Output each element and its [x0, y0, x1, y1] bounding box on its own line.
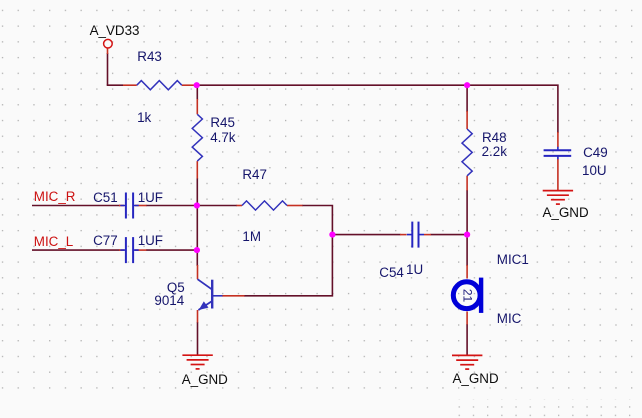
transistor Q5 — [198, 279, 223, 310]
label C54 — [379, 266, 404, 279]
capacitor C77 plates — [120, 237, 138, 263]
wire MIC_R net to C51 — [32, 205, 120, 207]
label 9014 — [154, 294, 184, 307]
capacitor C51 plates — [120, 193, 138, 219]
wire node E up: below R48 — [466, 190, 468, 235]
wire node B to R47 — [197, 205, 237, 207]
wire R45 bottom to node B — [196, 178, 198, 206]
label 10U — [582, 164, 607, 177]
pin C51 right — [135, 205, 147, 207]
label MIC_L — [34, 235, 73, 248]
ground A_GND (Q5 emitter) — [182, 355, 212, 369]
pin MIC1 bottom — [466, 312, 468, 325]
pin R43 left — [123, 84, 137, 86]
label C49 — [583, 146, 608, 159]
pin C51 left — [119, 205, 124, 207]
label C51 — [93, 191, 118, 204]
wire C51 to node B — [146, 205, 197, 207]
resistor R45 zigzag — [192, 114, 202, 161]
pin R47 right — [287, 205, 303, 207]
junction node B — [194, 202, 200, 208]
pin MIC1 top — [466, 265, 468, 279]
wire MIC1 to ground — [466, 324, 468, 355]
junction node E — [464, 232, 470, 238]
pin R45 bottom — [196, 161, 198, 178]
label 2.2k — [482, 145, 507, 158]
label R45 — [210, 116, 235, 129]
label MIC_R — [34, 190, 76, 203]
label R47 — [242, 168, 267, 181]
wire top rail from node A to C49 corner — [197, 85, 558, 133]
label A_GND (MIC1) — [453, 372, 499, 385]
pin C54 right — [424, 234, 431, 236]
power port A_VD33 circle — [104, 39, 113, 48]
junction node D — [329, 232, 335, 238]
wire power vertical A_VD33 to top rail — [32, 53, 558, 355]
label 1k — [137, 111, 151, 124]
pin Q5 emitter — [197, 310, 199, 323]
wire node D down to Q5 base run — [244, 235, 332, 296]
wire C49 pin to ground — [557, 176, 559, 191]
pin power port stub — [107, 48, 109, 54]
wire top rail down to R48 — [466, 85, 468, 112]
label A_GND (C49) — [543, 206, 589, 219]
pin R48 bottom — [466, 176, 468, 191]
pin C77 right — [135, 249, 147, 251]
capacitor C54 plates — [407, 222, 424, 248]
wire node C to Q5 collector — [196, 250, 198, 266]
pin C54 left — [400, 234, 407, 236]
label 4.7k — [210, 131, 235, 144]
pin R48 top — [466, 111, 468, 129]
label R43 — [137, 50, 162, 63]
microphone MIC1 — [453, 278, 483, 313]
wire C77 to node C — [146, 249, 197, 251]
junction node C — [194, 247, 200, 253]
wire top rail left segment — [107, 84, 123, 86]
junction top rail / R48 — [464, 82, 470, 88]
resistor R43 zigzag — [137, 81, 182, 90]
pin R45 top — [196, 99, 198, 114]
label A_VD33 — [90, 24, 140, 37]
transistor Q5 emitter arrow — [199, 301, 209, 310]
pin C77 left — [119, 249, 124, 251]
wire node E down to MIC1 — [466, 235, 468, 266]
label Q5 — [167, 281, 185, 294]
label MIC — [497, 312, 522, 325]
wire MIC_L net to C77 — [32, 249, 120, 251]
wire R47 right to corner down node D — [302, 206, 332, 235]
label 1UF (C51) — [138, 191, 163, 204]
wire C54 to node E — [431, 234, 468, 236]
label MIC1 — [497, 253, 529, 266]
wire node B to node C — [196, 206, 198, 251]
ground A_GND (MIC1) — [452, 355, 482, 369]
pin numbers 2 1 (MIC1) — [462, 286, 473, 304]
wire Q5 emitter to ground — [197, 322, 199, 355]
component pins (red) — [108, 48, 558, 324]
wire node D to C54 — [332, 234, 400, 236]
resistor R48 zigzag — [462, 129, 472, 176]
resistor R47 zigzag — [242, 201, 287, 210]
junction node A — [194, 82, 200, 88]
pin C49 top — [557, 132, 559, 147]
pin Q5 collector — [197, 265, 199, 279]
pin R43 right — [182, 84, 197, 86]
capacitor C49 plates (horizontal) — [544, 147, 572, 159]
ground A_GND (C49) — [543, 191, 573, 205]
label C77 — [93, 234, 118, 247]
pin C49 bottom — [557, 159, 559, 176]
label A_GND (Q5) — [182, 373, 228, 386]
label 1UF (C77) — [138, 234, 163, 247]
pin R47 left — [237, 205, 243, 207]
label 1M — [242, 230, 261, 243]
label 1U — [406, 263, 423, 276]
pin Q5 base — [222, 295, 245, 297]
label R48 — [482, 131, 507, 144]
wire node A down to R45 — [196, 85, 198, 100]
